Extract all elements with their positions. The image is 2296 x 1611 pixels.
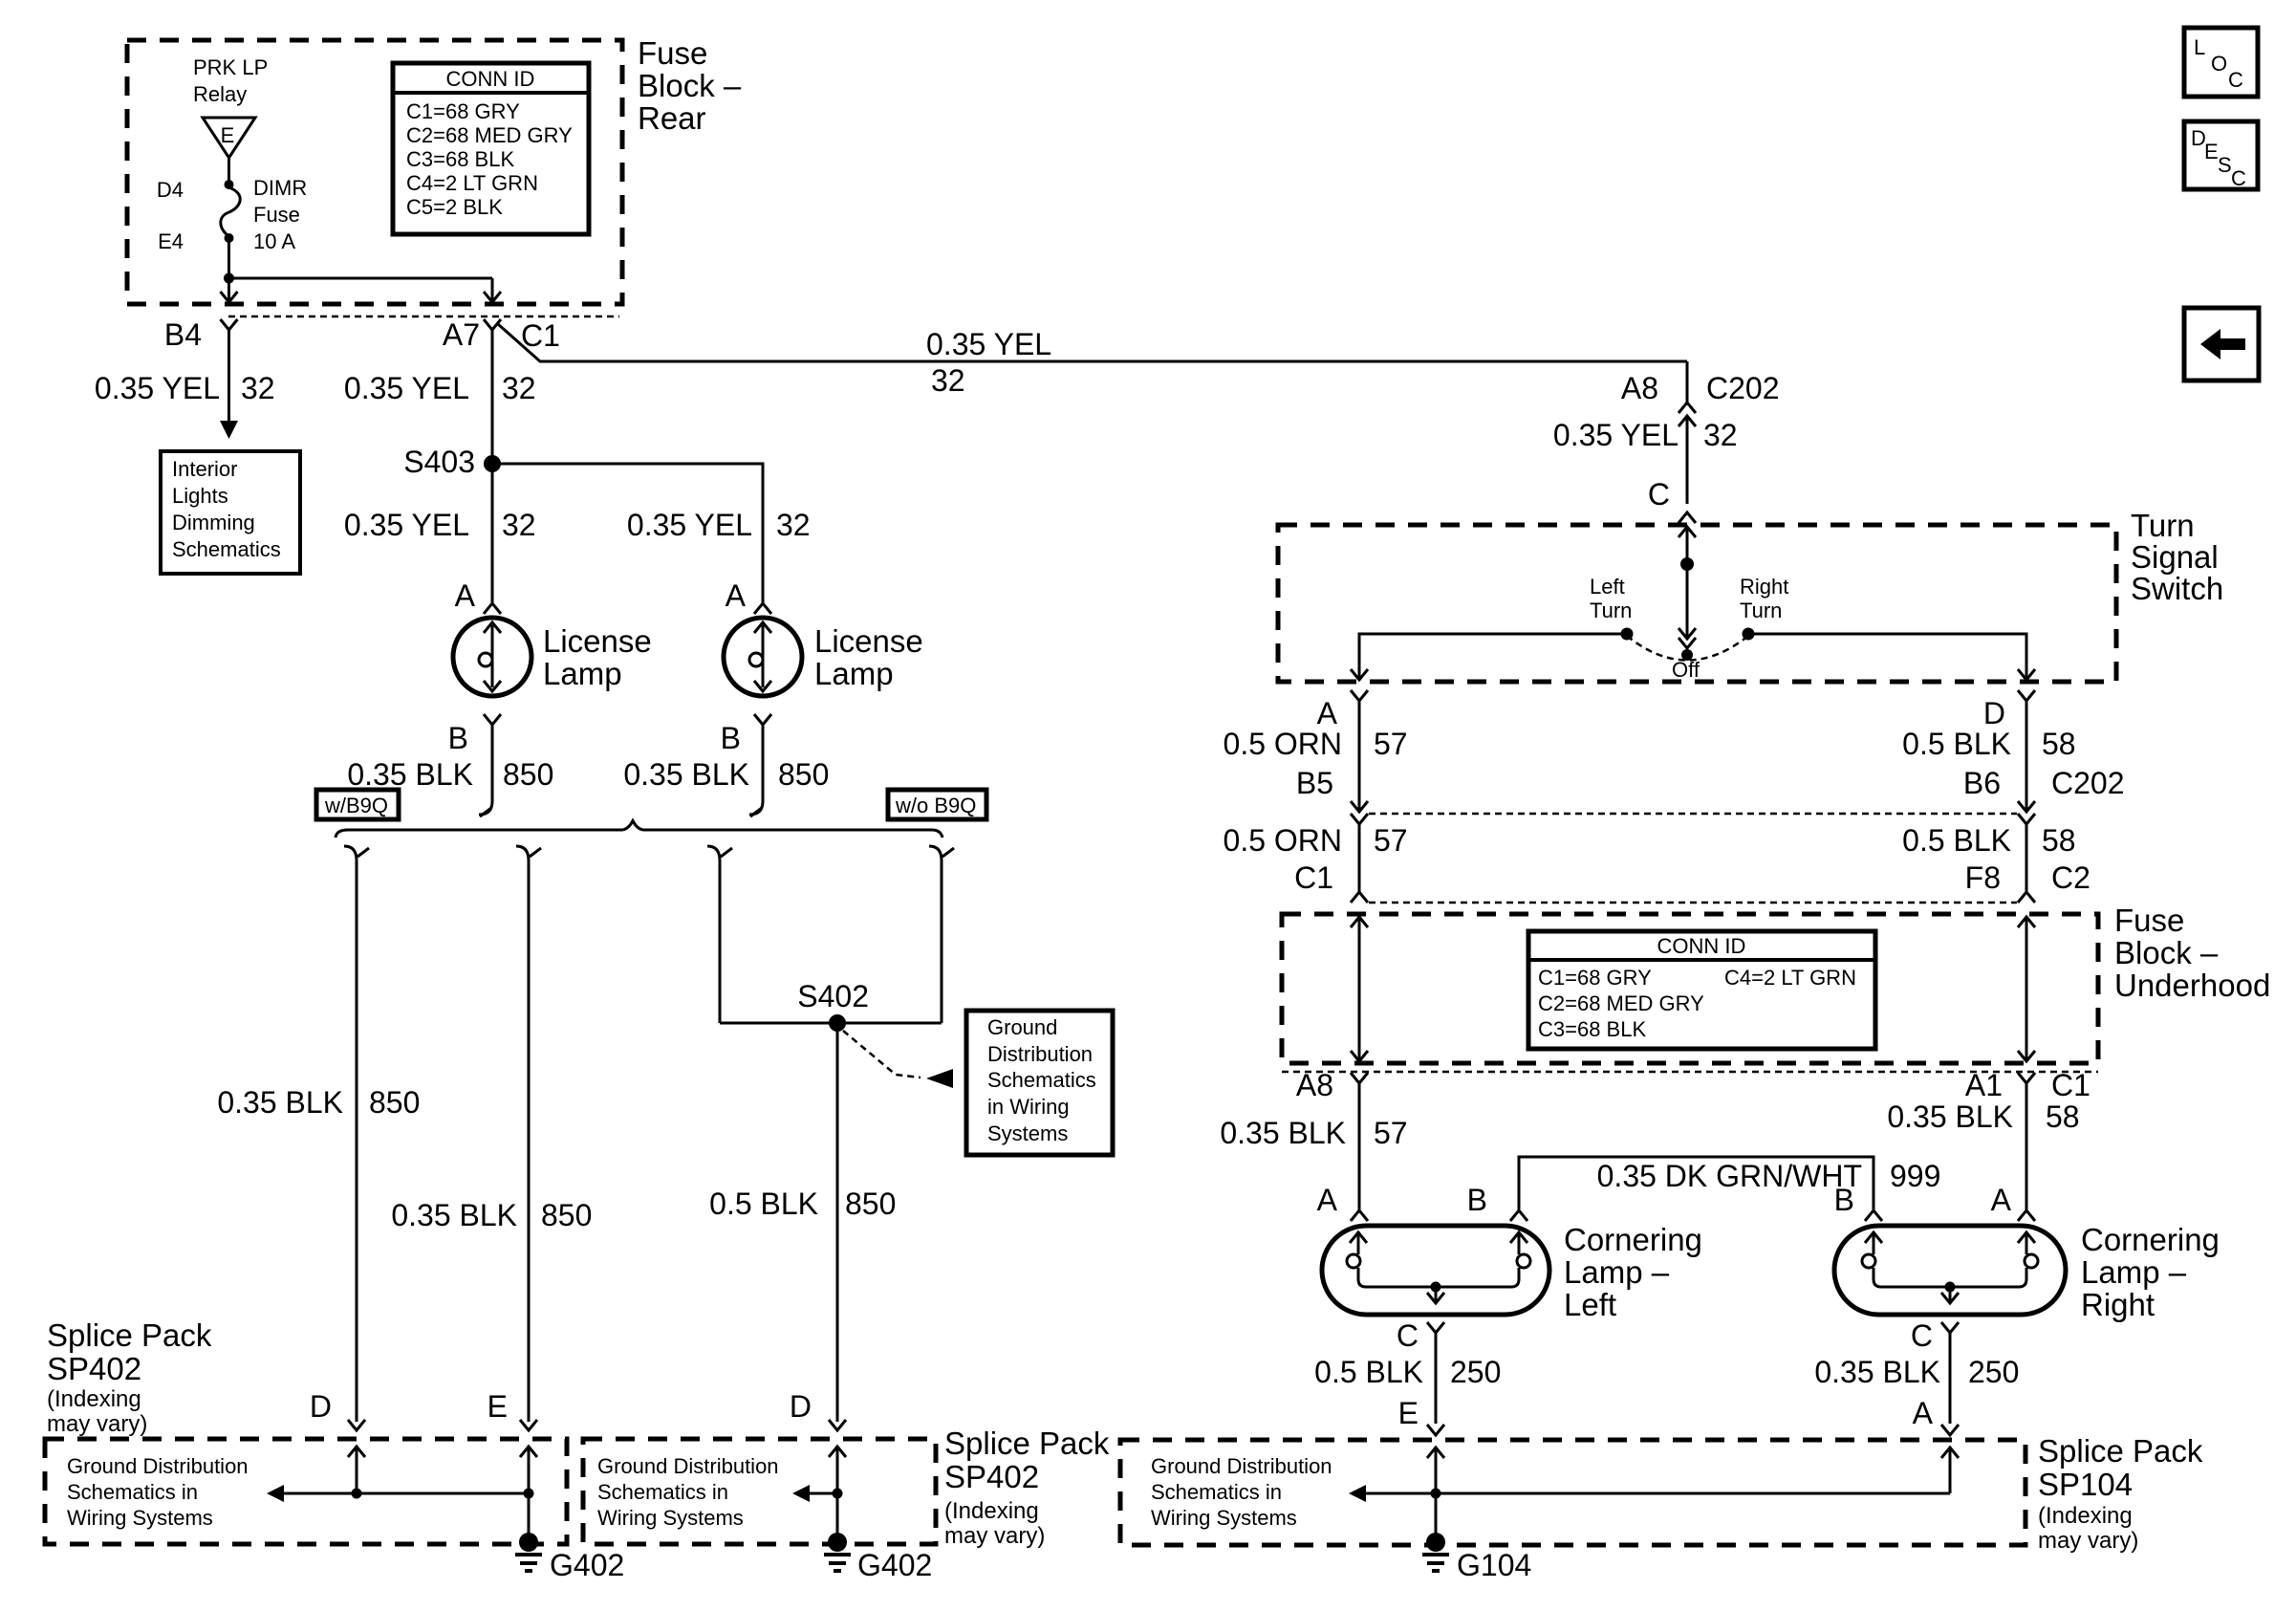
svg-text:A8: A8 — [1621, 371, 1658, 405]
splice S402 — [797, 979, 869, 1032]
terminal E (left lamp wire) — [1398, 1396, 1444, 1435]
svg-text:Lamp –: Lamp – — [1564, 1254, 1670, 1290]
svg-text:Ground: Ground — [987, 1015, 1057, 1039]
fuse block - rear dashed enclosure — [127, 40, 622, 304]
switch contact Right Turn — [1740, 575, 1788, 641]
svg-text:B: B — [721, 721, 741, 755]
label Cornering Lamp - Left — [1564, 1222, 1702, 1322]
terminal B4 — [164, 317, 238, 352]
terminal A7 / C1 — [443, 317, 560, 353]
wire U connection at S402 — [720, 1022, 942, 1025]
svg-text:C: C — [1397, 1318, 1419, 1353]
svg-text:L: L — [2194, 35, 2205, 59]
svg-text:Schematics: Schematics — [172, 537, 281, 561]
node E4 — [158, 229, 233, 253]
svg-text:32: 32 — [502, 508, 536, 542]
connector row C1 F8 C2 — [1294, 860, 2090, 903]
label 0.35 YEL 32 (right lamp feed) — [627, 508, 811, 542]
svg-text:0.35 BLK: 0.35 BLK — [1814, 1355, 1940, 1389]
wire E4 down to junction — [227, 238, 230, 278]
svg-text:0.5 ORN: 0.5 ORN — [1224, 823, 1342, 858]
junction dot inside fuse block — [224, 273, 234, 284]
svg-text:999: 999 — [1890, 1159, 1940, 1193]
svg-text:B5: B5 — [1296, 766, 1333, 800]
svg-text:Lamp: Lamp — [543, 656, 622, 691]
svg-text:32: 32 — [502, 371, 536, 405]
svg-text:Switch: Switch — [2131, 571, 2223, 606]
svg-text:850: 850 — [369, 1085, 420, 1120]
svg-text:w/B9Q: w/B9Q — [324, 794, 388, 817]
terminal A1 / C1 underhood — [1965, 1068, 2090, 1102]
wire 0.5 BLK 850 from S402 — [709, 1023, 896, 1422]
terminal E (drop 2) — [487, 1389, 537, 1430]
wire 0.5 BLK 250 (left lamp ground) — [1314, 1333, 1501, 1424]
svg-text:Cornering: Cornering — [2081, 1222, 2220, 1257]
wire 0.5 ORN 57 (C202 to fuse block) — [1224, 823, 1408, 903]
svg-text:250: 250 — [1450, 1355, 1501, 1389]
svg-text:Fuse: Fuse — [2114, 903, 2184, 938]
svg-text:C4=2 LT GRN: C4=2 LT GRN — [1724, 966, 1856, 990]
svg-text:Left: Left — [1590, 575, 1625, 599]
svg-text:850: 850 — [503, 757, 553, 792]
box 3 internal bus with arrow — [1349, 1485, 1950, 1502]
svg-text:A: A — [1913, 1396, 1934, 1430]
svg-text:A: A — [1991, 1183, 2012, 1217]
svg-text:E: E — [1398, 1396, 1419, 1430]
svg-text:C2=68 MED GRY: C2=68 MED GRY — [1538, 991, 1704, 1015]
svg-text:C1: C1 — [521, 318, 560, 353]
terminal A8 underhood — [1296, 1068, 1368, 1102]
connector C202 row B5 B6 — [1296, 766, 2125, 814]
svg-text:Right: Right — [2081, 1287, 2155, 1322]
svg-text:850: 850 — [845, 1186, 896, 1221]
label Fuse Block - Rear — [638, 35, 742, 136]
svg-text:License: License — [543, 623, 652, 659]
switch junction dot — [1680, 557, 1694, 571]
wire E into box 1 (arrow up) — [520, 1446, 537, 1493]
svg-text:0.35 YEL: 0.35 YEL — [344, 371, 469, 405]
wire S403 down to left license lamp — [491, 464, 494, 602]
svg-text:0.35 BLK: 0.35 BLK — [1887, 1099, 2013, 1134]
wire 0.35 YEL 32 (A7 to S403) — [344, 330, 536, 455]
DESC index box — [2184, 121, 2258, 190]
svg-text:D: D — [790, 1389, 812, 1424]
svg-text:58: 58 — [2046, 1099, 2080, 1134]
box 3 junction dot — [1431, 1489, 1441, 1499]
svg-text:Relay: Relay — [193, 82, 247, 106]
svg-text:E: E — [221, 123, 235, 147]
LOC index box — [2184, 28, 2258, 97]
svg-text:A: A — [1317, 1183, 1338, 1217]
svg-text:C3=68 BLK: C3=68 BLK — [1538, 1017, 1646, 1041]
svg-text:C5=2 BLK: C5=2 BLK — [406, 195, 503, 219]
underhood right wire pass-through — [2018, 916, 2035, 1061]
svg-text:0.35 BLK: 0.35 BLK — [217, 1085, 343, 1120]
label Cornering Lamp - Right — [2081, 1222, 2220, 1322]
svg-text:Left: Left — [1564, 1287, 1616, 1322]
svg-text:Ground Distribution: Ground Distribution — [1151, 1454, 1332, 1478]
fuse DIMR 10A symbol — [221, 187, 240, 236]
svg-text:Off: Off — [1672, 658, 1700, 682]
svg-text:32: 32 — [931, 363, 965, 398]
CONN ID table (rear fuse block) — [393, 63, 589, 234]
svg-text:B: B — [1467, 1183, 1487, 1217]
svg-text:0.35 YEL: 0.35 YEL — [1553, 418, 1679, 452]
svg-text:Splice Pack: Splice Pack — [944, 1426, 1110, 1461]
svg-text:C202: C202 — [1706, 371, 1780, 405]
svg-text:A: A — [455, 578, 476, 613]
switch feed wire with arrow up — [1679, 527, 1696, 564]
label Splice Pack SP402 (left) — [47, 1317, 212, 1437]
svg-text:w/o B9Q: w/o B9Q — [895, 794, 976, 817]
svg-text:850: 850 — [778, 757, 829, 792]
svg-text:D4: D4 — [157, 178, 184, 202]
svg-text:Splice Pack: Splice Pack — [47, 1317, 212, 1353]
svg-text:CONN ID: CONN ID — [1657, 934, 1746, 958]
svg-text:D: D — [1983, 696, 2005, 730]
svg-text:may vary): may vary) — [2038, 1528, 2138, 1554]
svg-text:Schematics in: Schematics in — [1151, 1480, 1282, 1504]
dashed reference arrow from S402 — [843, 1031, 953, 1088]
switch position Off — [1672, 649, 1700, 682]
ground G402 (left) — [515, 1533, 624, 1582]
svg-text:0.35 BLK: 0.35 BLK — [623, 757, 749, 792]
svg-text:Turn: Turn — [1740, 599, 1782, 622]
svg-text:A7: A7 — [443, 317, 480, 352]
svg-text:Ground Distribution: Ground Distribution — [597, 1454, 779, 1478]
svg-text:Wiring Systems: Wiring Systems — [597, 1506, 744, 1530]
label Splice Pack SP104 — [2038, 1433, 2203, 1554]
wire right lamp ground into box 3 — [1941, 1447, 1959, 1493]
label Splice Pack SP402 (middle) — [944, 1426, 1110, 1549]
terminal A right cornering lamp — [1991, 1183, 2035, 1221]
svg-text:C202: C202 — [2051, 766, 2125, 800]
svg-text:Fuse: Fuse — [638, 35, 707, 71]
svg-text:A: A — [1317, 696, 1338, 730]
ground distribution dashed box 2 — [583, 1439, 936, 1544]
wire D into box 1 (arrow up) — [348, 1446, 365, 1493]
ground distribution dashed box 3 — [1120, 1440, 2025, 1545]
svg-text:57: 57 — [1374, 727, 1408, 761]
wire 0.35 BLK 850 from right lamp — [623, 725, 829, 816]
svg-text:C4=2 LT GRN: C4=2 LT GRN — [406, 171, 538, 195]
wire 0.35 BLK 850 drop 1 — [217, 860, 420, 1422]
svg-text:S: S — [2218, 153, 2232, 177]
ground G104 — [1422, 1533, 1531, 1582]
svg-text:may vary): may vary) — [47, 1411, 147, 1437]
svg-text:SP402: SP402 — [47, 1351, 141, 1386]
svg-text:Lights: Lights — [172, 484, 228, 508]
svg-text:Ground Distribution: Ground Distribution — [67, 1454, 249, 1478]
connector boundary line C1 of rear fuse block — [228, 316, 619, 318]
svg-text:C1: C1 — [1294, 860, 1333, 895]
svg-text:CONN ID: CONN ID — [446, 67, 535, 91]
svg-text:0.35 DK GRN/WHT: 0.35 DK GRN/WHT — [1597, 1159, 1862, 1193]
svg-text:0.35 YEL: 0.35 YEL — [344, 508, 469, 542]
wire C1 diagonal branch to long feed — [498, 324, 1687, 361]
connector boundary below underhood block — [1282, 1071, 2098, 1074]
terminal D switch — [1983, 690, 2035, 730]
label Fuse Block - Underhood — [2114, 903, 2270, 1003]
wire 0.35 BLK 850 drop 2 — [391, 860, 592, 1422]
svg-text:0.5 BLK: 0.5 BLK — [1902, 823, 2011, 858]
box 2 junction dot — [833, 1489, 843, 1499]
relay PRK LP label — [193, 55, 268, 106]
wire 0.35 BLK 250 (right lamp ground) — [1814, 1333, 2019, 1424]
wire 0.35 DK GRN/WHT 999 — [1519, 1157, 1940, 1209]
svg-text:(Indexing: (Indexing — [2038, 1503, 2133, 1529]
switch wiper arrow — [1679, 564, 1696, 648]
ground distribution reference box (S402) — [966, 1011, 1113, 1155]
option tag w/B9Q — [316, 790, 399, 819]
label 0.35 YEL 32 on long feed wire — [926, 327, 1051, 398]
svg-text:C2=68 MED GRY: C2=68 MED GRY — [406, 123, 573, 147]
wire drop 3 to splice S402 — [719, 860, 722, 1023]
svg-text:G402: G402 — [550, 1548, 624, 1582]
wire S402-D into box 2 (arrow up) — [829, 1446, 846, 1535]
label 0.35 YEL 32 (left lamp feed) — [344, 508, 536, 542]
terminal A (right lamp wire) — [1913, 1396, 1959, 1435]
terminal A right license lamp — [726, 578, 771, 614]
terminal B left cornering lamp — [1467, 1183, 1527, 1221]
box 1 junction dot D — [352, 1489, 362, 1499]
svg-text:C: C — [2228, 68, 2243, 92]
svg-text:Turn: Turn — [1590, 599, 1632, 622]
wire drop 3 hook (w/o B9Q) — [707, 846, 732, 860]
svg-text:Block –: Block – — [638, 68, 742, 103]
svg-text:Lamp: Lamp — [814, 656, 894, 691]
svg-text:C1: C1 — [2051, 1068, 2090, 1102]
wire 0.35 BLK 58 (to right cornering lamp) — [1887, 1083, 2079, 1209]
wire left lamp ground into box 3 — [1427, 1447, 1444, 1535]
svg-text:S402: S402 — [797, 979, 869, 1013]
svg-text:0.5 BLK: 0.5 BLK — [709, 1186, 818, 1221]
terminal B right cornering lamp — [1834, 1183, 1882, 1221]
license lamp left (bulb symbol) — [453, 618, 531, 696]
svg-text:Turn: Turn — [2131, 508, 2195, 543]
svg-text:Schematics: Schematics — [987, 1068, 1096, 1092]
svg-text:A1: A1 — [1965, 1068, 2003, 1102]
svg-text:Block –: Block – — [2114, 935, 2219, 970]
svg-text:Right: Right — [1740, 575, 1788, 599]
svg-text:Underhood: Underhood — [2114, 968, 2270, 1003]
terminal B5 fork — [1351, 814, 1368, 824]
relay PRK LP symbol (triangle E) — [203, 118, 255, 158]
svg-text:0.5 BLK: 0.5 BLK — [1902, 727, 2011, 761]
svg-text:B: B — [1834, 1183, 1854, 1217]
svg-text:Cornering: Cornering — [1564, 1222, 1702, 1257]
wire right turn output — [1748, 634, 2035, 680]
terminal C right cornering lamp — [1911, 1318, 1959, 1353]
svg-text:10 A: 10 A — [253, 229, 295, 253]
svg-text:0.35 YEL: 0.35 YEL — [627, 508, 752, 542]
node D4 — [157, 178, 234, 202]
svg-text:License: License — [814, 623, 923, 659]
svg-text:0.5 BLK: 0.5 BLK — [1314, 1355, 1423, 1389]
svg-text:PRK LP: PRK LP — [193, 55, 268, 79]
svg-text:Interior: Interior — [172, 457, 237, 481]
wire long feed corner down to C202 — [1686, 361, 1689, 403]
svg-text:(Indexing: (Indexing — [47, 1386, 141, 1412]
svg-text:C3=68 BLK: C3=68 BLK — [406, 147, 514, 171]
wire 0.35 BLK 850 from left lamp — [347, 725, 553, 816]
svg-text:A: A — [726, 578, 747, 613]
fuse block - underhood dashed box — [1282, 914, 2098, 1063]
ground G402 (middle) — [824, 1533, 932, 1582]
svg-text:in Wiring: in Wiring — [987, 1095, 1070, 1119]
terminal D (drop 1) — [310, 1389, 365, 1430]
svg-text:O: O — [2211, 52, 2227, 76]
connector C202 terminal A8 — [1621, 371, 1780, 426]
svg-text:C: C — [1648, 477, 1670, 512]
svg-text:C: C — [1911, 1318, 1933, 1353]
svg-text:0.5 ORN: 0.5 ORN — [1224, 727, 1342, 761]
svg-text:G402: G402 — [857, 1548, 932, 1582]
svg-text:C: C — [2231, 166, 2246, 190]
box 2 internal stub with arrow — [792, 1485, 837, 1502]
cornering lamp - left (dual filament) — [1322, 1226, 1549, 1315]
wire E to ground G402 — [528, 1493, 531, 1535]
terminal C turn signal switch — [1648, 477, 1696, 523]
label License Lamp (left) — [543, 623, 652, 691]
terminal D (S402 wire) — [790, 1389, 846, 1430]
wire drop 1 hook (w/B9Q D) — [344, 846, 369, 860]
svg-text:Wiring Systems: Wiring Systems — [67, 1506, 213, 1530]
license lamp right (bulb symbol) — [724, 618, 802, 696]
box 1 junction dot E — [524, 1489, 534, 1499]
svg-text:0.35 BLK: 0.35 BLK — [391, 1198, 517, 1232]
wire 0.5 ORN 57 (switch to C202) — [1224, 701, 1408, 812]
wire relay to D4 — [227, 158, 230, 182]
svg-text:F8: F8 — [1965, 860, 2001, 895]
underhood left wire pass-through — [1351, 916, 1368, 1061]
box 1 internal bus with arrow — [267, 1485, 529, 1502]
svg-text:Distribution: Distribution — [987, 1042, 1093, 1066]
CONN ID table (underhood) — [1528, 931, 1875, 1049]
svg-text:32: 32 — [776, 508, 811, 542]
svg-text:B: B — [448, 721, 468, 755]
svg-text:Systems: Systems — [987, 1121, 1068, 1145]
label Turn Signal Switch — [2131, 508, 2223, 606]
svg-text:A8: A8 — [1296, 1068, 1333, 1102]
svg-text:Schematics in: Schematics in — [597, 1480, 728, 1504]
svg-text:E4: E4 — [158, 229, 184, 253]
svg-text:0.35 YEL: 0.35 YEL — [926, 327, 1051, 361]
svg-text:Splice Pack: Splice Pack — [2038, 1433, 2203, 1469]
svg-text:E: E — [2204, 140, 2219, 163]
svg-text:E: E — [487, 1389, 508, 1424]
terminal A left cornering lamp — [1317, 1183, 1368, 1221]
svg-text:Schematics in: Schematics in — [67, 1480, 198, 1504]
svg-text:SP402: SP402 — [944, 1459, 1039, 1494]
svg-text:0.35 BLK: 0.35 BLK — [1220, 1116, 1346, 1150]
turn signal switch dashed box — [1278, 525, 2116, 682]
wire 0.5 BLK 58 (switch to C202) — [1902, 701, 2075, 812]
svg-text:Signal: Signal — [2131, 539, 2219, 575]
svg-text:57: 57 — [1374, 1116, 1408, 1150]
svg-text:C1=68 GRY: C1=68 GRY — [1538, 966, 1652, 990]
option brace bus — [336, 821, 942, 838]
svg-text:SP104: SP104 — [2038, 1467, 2133, 1502]
svg-text:G104: G104 — [1457, 1548, 1531, 1582]
svg-text:32: 32 — [241, 371, 275, 405]
svg-text:0.35 YEL: 0.35 YEL — [95, 371, 220, 405]
svg-text:DIMR: DIMR — [253, 176, 307, 200]
switch travel dashed arc — [1627, 636, 1748, 661]
terminal B6 fork — [2018, 814, 2035, 824]
svg-text:58: 58 — [2042, 823, 2076, 858]
arrow into interior lights dimming reference — [220, 421, 238, 439]
wire branch junction to A7 drop — [229, 277, 493, 280]
wire A7 exit arrow — [484, 278, 501, 302]
wire drop 4 to splice S402 — [941, 860, 943, 1023]
terminal A switch — [1317, 690, 1368, 730]
svg-text:Rear: Rear — [638, 100, 706, 136]
svg-text:B6: B6 — [1963, 766, 2001, 800]
label License Lamp (right) — [814, 623, 923, 691]
splice S403 — [403, 445, 501, 479]
terminal A left license lamp — [455, 578, 501, 614]
wire 0.35 BLK 57 (to left cornering lamp) — [1220, 1083, 1407, 1209]
svg-text:32: 32 — [1703, 418, 1738, 452]
label DIMR Fuse 10 A — [253, 176, 307, 253]
wire S403 branch to right license lamp — [492, 464, 763, 602]
wire drop 4 hook (w/o B9Q) — [929, 846, 954, 860]
wire drop 2 hook (w/B9Q E) — [516, 846, 541, 860]
svg-text:Wiring Systems: Wiring Systems — [1151, 1506, 1297, 1530]
wire 0.5 BLK 58 (C202 to fuse block) — [1902, 823, 2075, 903]
svg-text:850: 850 — [541, 1198, 592, 1232]
svg-text:58: 58 — [2042, 727, 2076, 761]
svg-text:0.35 BLK: 0.35 BLK — [347, 757, 473, 792]
svg-text:S403: S403 — [403, 445, 475, 479]
interior lights dimming schematics reference box — [161, 451, 300, 574]
cornering lamp - right (dual filament) — [1834, 1226, 2066, 1315]
terminal B left license lamp — [448, 714, 501, 755]
svg-text:250: 250 — [1968, 1355, 2019, 1389]
wire left turn output — [1351, 634, 1627, 680]
terminal C left cornering lamp — [1397, 1318, 1444, 1353]
svg-text:C1=68 GRY: C1=68 GRY — [406, 99, 520, 123]
svg-text:may vary): may vary) — [944, 1523, 1045, 1549]
svg-text:(Indexing: (Indexing — [944, 1498, 1039, 1524]
back arrow box — [2184, 308, 2259, 381]
ground distribution dashed box 1 — [45, 1439, 567, 1544]
terminal B right license lamp — [721, 714, 771, 755]
wire B4 exit arrow — [221, 278, 238, 302]
svg-text:Lamp –: Lamp – — [2081, 1254, 2187, 1290]
svg-text:B4: B4 — [164, 317, 202, 352]
svg-text:C2: C2 — [2051, 860, 2090, 895]
option tag w/o B9Q — [888, 790, 986, 819]
wire 0.35 YEL 32 (C202 to switch) — [1553, 417, 1738, 504]
switch contact Left Turn — [1590, 575, 1634, 641]
svg-text:Dimming: Dimming — [172, 511, 255, 534]
svg-text:D: D — [310, 1389, 332, 1424]
svg-text:57: 57 — [1374, 823, 1408, 858]
svg-text:Fuse: Fuse — [253, 203, 300, 227]
wire 0.35 YEL 32 (B4 branch) — [95, 330, 275, 421]
